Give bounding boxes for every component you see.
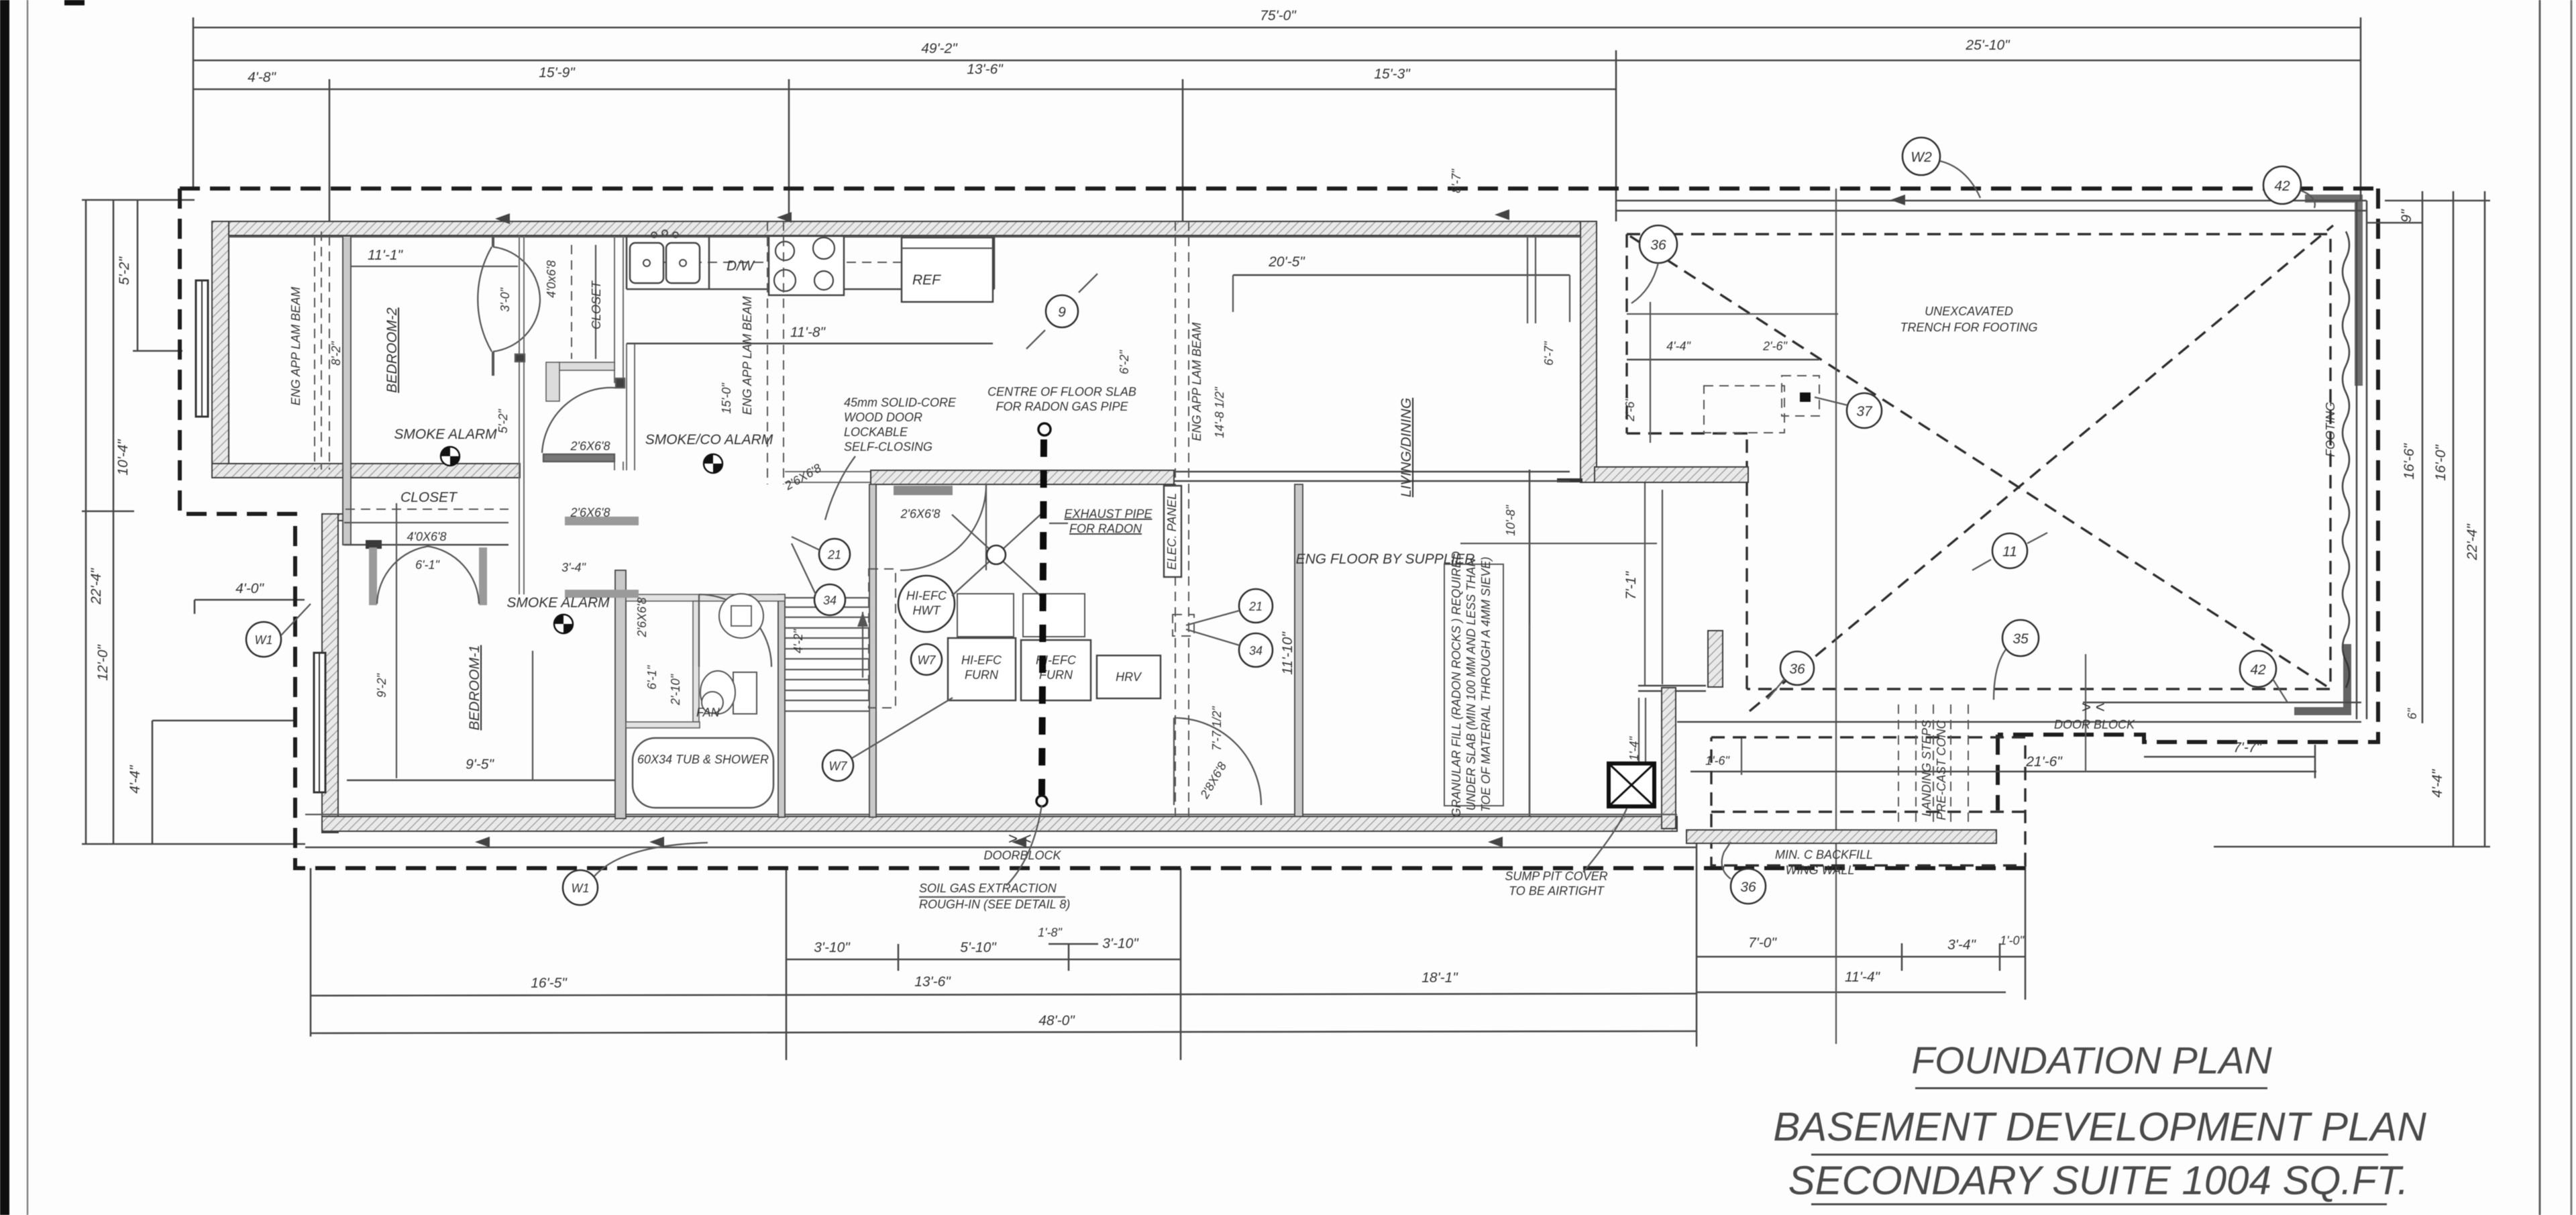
- svg-text:W7: W7: [829, 759, 848, 773]
- svg-text:FOUNDATION PLAN: FOUNDATION PLAN: [1911, 1039, 2272, 1082]
- stove with 4 burners: [769, 236, 844, 295]
- bedroom2 left wall: [343, 236, 351, 545]
- svg-text:2'6X6'8: 2'6X6'8: [570, 506, 610, 519]
- svg-text:21'-6": 21'-6": [2025, 754, 2063, 770]
- wing top wall thin lines: [1616, 200, 2367, 202]
- left wall upper: [212, 221, 229, 478]
- ext lines down from building: [310, 868, 312, 1037]
- svg-text:FOOTING: FOOTING: [2324, 402, 2337, 457]
- 11'-8" dim: [627, 343, 993, 345]
- bath top walls: [626, 594, 785, 601]
- svg-text:75'-0": 75'-0": [1260, 8, 1297, 23]
- svg-text:36: 36: [1740, 880, 1756, 895]
- svg-text:22'-4": 22'-4": [89, 568, 104, 605]
- svg-text:37: 37: [1856, 404, 1873, 419]
- bath mid wall (toilet nook): [693, 601, 699, 722]
- counter centre dashed: [631, 262, 902, 263]
- svg-text:TRENCH FOR FOOTING: TRENCH FOR FOOTING: [1900, 321, 2038, 334]
- SE corner dark angle: [2294, 644, 2347, 711]
- keynote circle W1 (left wall): [246, 622, 281, 657]
- svg-text:FOR RADON: FOR RADON: [1069, 522, 1142, 535]
- footing line under bottom wall: [305, 847, 1697, 849]
- svg-text:20'-5": 20'-5": [1268, 254, 1305, 270]
- svg-text:SOIL GAS EXTRACTION: SOIL GAS EXTRACTION: [919, 882, 1057, 895]
- svg-text:49'-2": 49'-2": [921, 41, 958, 56]
- furnace 1 HI-EFC FURN: [948, 638, 1016, 700]
- svg-text:4'-4": 4'-4": [1666, 339, 1691, 353]
- svg-text:6'-2": 6'-2": [1118, 349, 1131, 374]
- keynote circle W1 (bottom): [563, 870, 598, 905]
- living door SE: [1174, 718, 1261, 805]
- hall door: [543, 454, 614, 462]
- svg-text:MIN. C BACKFILL: MIN. C BACKFILL: [1775, 848, 1873, 861]
- bedroom2 double door: [492, 236, 494, 247]
- hot water tank HI-EFC HWT: [898, 576, 955, 632]
- svg-text:10'-4": 10'-4": [115, 439, 131, 476]
- svg-text:7'-7 1/2": 7'-7 1/2": [1210, 705, 1224, 750]
- svg-text:W7: W7: [918, 653, 936, 667]
- svg-text:CLOSET: CLOSET: [400, 490, 458, 505]
- svg-text:22'-4": 22'-4": [2465, 523, 2480, 561]
- svg-text:15'-9": 15'-9": [539, 65, 576, 81]
- closet rod dashed: [345, 509, 508, 510]
- svg-text:TOE OF MATERIAL THROUGH A 4MM: TOE OF MATERIAL THROUGH A 4MM SIEVE): [1479, 557, 1493, 812]
- top wall: [212, 221, 1597, 235]
- landing dashed rect: [869, 569, 896, 708]
- svg-text:6'-1": 6'-1": [645, 664, 659, 689]
- svg-text:4'-2": 4'-2": [792, 628, 805, 653]
- svg-text:3'-10": 3'-10": [814, 940, 851, 955]
- svg-text:14'-8 1/2": 14'-8 1/2": [1213, 386, 1226, 437]
- svg-text:W2: W2: [1911, 150, 1932, 165]
- svg-text:LOCKABLE: LOCKABLE: [844, 425, 908, 439]
- bath door: [699, 594, 771, 667]
- dashed box: [1711, 737, 2025, 865]
- svg-text:3'-0": 3'-0": [498, 286, 512, 311]
- svg-text:6": 6": [2406, 707, 2419, 719]
- svg-text:SECONDARY SUITE 1004 SQ.FT.: SECONDARY SUITE 1004 SQ.FT.: [1788, 1158, 2409, 1203]
- svg-text:9'-5": 9'-5": [466, 757, 494, 772]
- right wing outer dashed: [1998, 189, 2378, 742]
- svg-text:HRV: HRV: [1116, 670, 1142, 684]
- svg-text:2'6X6'8: 2'6X6'8: [900, 507, 941, 521]
- bathtub 60x34: [633, 738, 773, 808]
- kitchen double sink: [630, 243, 663, 283]
- svg-text:DOORBLOCK: DOORBLOCK: [983, 849, 1061, 862]
- svg-text:3'-4": 3'-4": [561, 561, 586, 574]
- X-box dashed rectangle: [1627, 234, 2330, 689]
- svg-text:2'6X6'8: 2'6X6'8: [570, 439, 610, 453]
- svg-text:42: 42: [2250, 662, 2266, 678]
- svg-text:GRANULAR FILL (RADON ROCKS ) R: GRANULAR FILL (RADON ROCKS ) REQUIRED: [1450, 551, 1463, 818]
- keynote circle 35: [2002, 620, 2039, 656]
- svg-text:W1: W1: [572, 882, 590, 895]
- left wall lower (bedroom1): [322, 514, 338, 833]
- row 16'-5" 13'-6" 18'-1" 11'-4": [311, 994, 1697, 996]
- svg-text:7'-7": 7'-7": [2233, 740, 2262, 755]
- row 7'-0" 3'-4" 1'-0": [1697, 956, 2025, 958]
- svg-text:CLOSET: CLOSET: [590, 280, 603, 329]
- svg-text:CENTRE OF FLOOR SLAB: CENTRE OF FLOOR SLAB: [987, 385, 1136, 399]
- keynote 36 circle: [1731, 869, 1766, 904]
- stair arrow: [862, 612, 863, 678]
- svg-text:34: 34: [823, 594, 837, 607]
- window left upper room: [196, 280, 208, 417]
- svg-text:16'-5": 16'-5": [531, 975, 568, 991]
- wiggly insulation line in right wall: [2343, 231, 2349, 688]
- svg-text:ELEC. PANEL: ELEC. PANEL: [1165, 493, 1179, 570]
- svg-text:2'-6": 2'-6": [1762, 339, 1788, 353]
- svg-text:48'-0": 48'-0": [1038, 1013, 1075, 1028]
- svg-text:3'-10": 3'-10": [1102, 936, 1139, 951]
- dim 21'-6": [1690, 771, 2316, 773]
- svg-text:4'0X6'8: 4'0X6'8: [407, 530, 447, 543]
- row 1'-8": [1049, 943, 1098, 945]
- toilet: [733, 672, 757, 714]
- living east boundary thin line: [1529, 470, 1531, 816]
- keynote circle 21 (left): [819, 539, 850, 570]
- svg-text:2'6X6'8: 2'6X6'8: [635, 598, 649, 638]
- svg-text:SUMP PIT COVER: SUMP PIT COVER: [1505, 869, 1607, 883]
- svg-text:16'-6": 16'-6": [2402, 443, 2417, 480]
- pipe lines to sump: [1638, 698, 1640, 763]
- svg-text:6'-7": 6'-7": [1542, 340, 1556, 365]
- svg-text:60X34 TUB & SHOWER: 60X34 TUB & SHOWER: [637, 753, 769, 766]
- living window lines: [533, 236, 1536, 780]
- keynote circle W7 (upper): [911, 644, 942, 675]
- svg-text:35: 35: [2012, 631, 2029, 647]
- svg-text:ROUGH-IN (SEE DETAIL 8): ROUGH-IN (SEE DETAIL 8): [919, 898, 1070, 911]
- hall wall right of bedroom2: [396, 503, 397, 778]
- svg-text:FURN: FURN: [965, 668, 999, 682]
- svg-text:11'-4": 11'-4": [1845, 969, 1880, 985]
- HRV unit: [1097, 655, 1161, 698]
- keynote circle 34 (left): [814, 584, 845, 615]
- svg-text:TO BE AIRTIGHT: TO BE AIRTIGHT: [1509, 884, 1605, 898]
- svg-text:3'-4": 3'-4": [1947, 937, 1976, 953]
- mid wall (mech top): [871, 470, 1174, 484]
- svg-text:ENG APP LAM BEAM: ENG APP LAM BEAM: [289, 287, 303, 406]
- row 3'-10" 5'-10" 3'-10": [786, 959, 1181, 961]
- svg-text:10'-8": 10'-8": [1504, 504, 1517, 535]
- svg-text:W1: W1: [255, 633, 273, 647]
- svg-text:PRE-CAST CONC: PRE-CAST CONC: [1935, 719, 1948, 820]
- keynote circle W2: [1902, 138, 1940, 175]
- pad detail at wing NW: [1623, 302, 1838, 443]
- wing right wall thin lines: [2356, 201, 2358, 719]
- svg-text:HWT: HWT: [913, 604, 942, 617]
- svg-text:45mm SOLID-CORE: 45mm SOLID-CORE: [844, 396, 957, 409]
- SE nook top lines: [1638, 685, 1706, 687]
- svg-text:7'-0": 7'-0": [1748, 935, 1777, 951]
- svg-text:9'-2": 9'-2": [375, 672, 388, 697]
- svg-text:HI-EFC: HI-EFC: [906, 589, 947, 602]
- svg-text:6'-1": 6'-1": [415, 558, 440, 572]
- svg-text:1'-0": 1'-0": [2000, 934, 2025, 947]
- svg-text:16'-0": 16'-0": [2433, 444, 2449, 481]
- svg-text:REF: REF: [912, 272, 941, 288]
- svg-text:ENG APP LAM BEAM: ENG APP LAM BEAM: [741, 297, 754, 415]
- svg-text:21: 21: [1248, 600, 1263, 613]
- keynote circle 9: [1046, 295, 1078, 327]
- keynote circle 21 (right): [1239, 589, 1273, 623]
- svg-text:DOOR BLOCK: DOOR BLOCK: [2054, 718, 2135, 731]
- keynote circle W7 (lower): [822, 750, 853, 781]
- svg-text:4'-4": 4'-4": [2430, 769, 2445, 798]
- svg-text:1'-4": 1'-4": [1627, 735, 1641, 760]
- bathroom lavatory: [719, 594, 763, 638]
- sheet right border lines: [2539, 0, 2541, 1215]
- svg-text:5'-2": 5'-2": [117, 256, 132, 285]
- svg-text:9: 9: [1058, 305, 1066, 320]
- svg-text:UNEXCAVATED: UNEXCAVATED: [1925, 305, 2013, 318]
- furnace boxes: [957, 594, 1014, 637]
- svg-text:LIVING/DINING: LIVING/DINING: [1399, 398, 1414, 497]
- SE small hatch corner: [1708, 631, 1723, 687]
- svg-text:> <: > <: [2082, 698, 2105, 717]
- svg-text:11: 11: [2002, 544, 2017, 560]
- stairs treads: [785, 606, 869, 608]
- svg-text:36: 36: [1789, 662, 1805, 677]
- svg-text:9": 9": [2399, 209, 2414, 223]
- svg-text:FOR RADON GAS PIPE: FOR RADON GAS PIPE: [996, 400, 1128, 413]
- svg-text:11'-8": 11'-8": [790, 325, 826, 340]
- step to bedroom1 wall: [322, 514, 349, 521]
- long ext line through wing: [1835, 189, 1837, 1044]
- svg-text:7'-1": 7'-1": [1623, 571, 1639, 600]
- row 48'-0": [311, 1031, 1697, 1033]
- svg-text:SMOKE/CO ALARM: SMOKE/CO ALARM: [645, 432, 773, 447]
- right wall upper: [1580, 221, 1597, 482]
- dim 49'-2" / 25'-10" line: [193, 38, 2361, 221]
- svg-text:FAN: FAN: [696, 706, 720, 719]
- dashed vertical at sump side: [1996, 735, 2000, 810]
- dim 7'-7": [2144, 756, 2315, 758]
- svg-text:25'-10": 25'-10": [1965, 38, 2010, 53]
- bottom wall: [322, 816, 1677, 831]
- dim 4'-8" 15'-9" 13'-6" 15'-3" line: [193, 62, 1616, 236]
- mech door: [900, 484, 986, 570]
- landing steps dashed verticals: [1898, 704, 1899, 827]
- svg-text:LANDING STEPS: LANDING STEPS: [1920, 720, 1933, 816]
- NE corner dark angle (keynote 42): [2305, 199, 2359, 386]
- svg-text:4'-0": 4'-0": [235, 581, 264, 596]
- svg-text:4'-8": 4'-8": [248, 70, 276, 85]
- svg-text:SMOKE ALARM: SMOKE ALARM: [506, 595, 610, 611]
- sheet left thin border line: [27, 0, 28, 1215]
- door header dark bars: [894, 486, 953, 495]
- wing bottom lines: [2083, 702, 2361, 704]
- 7'-1" rotated dim: [1644, 482, 1646, 686]
- svg-text:UNDER SLAB (MIN 100 MM AND LES: UNDER SLAB (MIN 100 MM AND LESS THAN: [1464, 558, 1478, 810]
- svg-text:8'-2": 8'-2": [329, 340, 343, 365]
- dim 4'-0": [195, 599, 305, 601]
- keynote circle 36 (mid): [1780, 651, 1814, 685]
- bedroom1 double door: [369, 547, 377, 605]
- svg-text:SELF-CLOSING: SELF-CLOSING: [844, 440, 932, 454]
- exhaust fan X: [952, 515, 1040, 596]
- vertical ext by pit: [2085, 654, 2086, 772]
- SE nook right wall: [1662, 688, 1676, 829]
- svg-text:SMOKE ALARM: SMOKE ALARM: [394, 427, 497, 442]
- svg-text:HI-EFC: HI-EFC: [961, 653, 1002, 667]
- window bedroom1: [314, 653, 325, 792]
- sheet top-left black tick: [64, 0, 85, 5]
- right step band to wing: [1595, 467, 1748, 482]
- svg-text:BASEMENT DEVELOPMENT PLAN: BASEMENT DEVELOPMENT PLAN: [1773, 1104, 2426, 1149]
- granular fill rotated box: [1444, 564, 1503, 806]
- bath/stairs wall: [778, 594, 785, 817]
- svg-text:42: 42: [2274, 178, 2290, 194]
- keynote circle 37: [1847, 393, 1882, 428]
- left dim chain ticks: [82, 199, 195, 201]
- svg-text:BEDROOM-1: BEDROOM-1: [467, 645, 482, 730]
- svg-text:8'-7": 8'-7": [1450, 168, 1463, 193]
- dim 75'-0" line: [193, 8, 2361, 201]
- svg-text:15'-3": 15'-3": [1374, 66, 1411, 82]
- left dashed footing with jogs: [180, 189, 2025, 868]
- hatched wing wall band: [1686, 830, 1996, 843]
- svg-text:1'-8": 1'-8": [1038, 926, 1063, 939]
- svg-text:34: 34: [1249, 644, 1263, 657]
- keynote circle 11: [1992, 533, 2027, 568]
- keynote circle 42 (top): [2263, 166, 2301, 204]
- pantry closet walls: [614, 236, 615, 383]
- sump pit: [1609, 763, 1654, 806]
- svg-text:BEDROOM-2: BEDROOM-2: [384, 307, 400, 393]
- svg-text:13'-6": 13'-6": [914, 974, 951, 990]
- svg-text:4'-4": 4'-4": [127, 765, 143, 794]
- closet bottom wall line with door header: [344, 544, 508, 546]
- svg-text:ENG APP LAM BEAM: ENG APP LAM BEAM: [1190, 323, 1203, 441]
- svg-text:EXHAUST PIPE: EXHAUST PIPE: [1064, 507, 1152, 521]
- counter edge: [627, 288, 994, 290]
- stairs right wall: [869, 484, 876, 817]
- svg-text:4'0x6'8: 4'0x6'8: [545, 260, 558, 298]
- X diagonals: [1630, 236, 2328, 687]
- svg-text:2'-10": 2'-10": [669, 673, 682, 705]
- fridge REF: [902, 237, 993, 302]
- tub front wall: [626, 722, 700, 728]
- svg-text:13'-6": 13'-6": [967, 62, 1004, 77]
- svg-text:WING WALL: WING WALL: [1786, 863, 1855, 877]
- svg-text:2'-6": 2'-6": [1623, 396, 1637, 421]
- svg-text:> <: > <: [1008, 830, 1032, 848]
- svg-text:D/W: D/W: [727, 258, 755, 274]
- mech/living wall: [1295, 484, 1303, 816]
- top dashed footing line: [180, 187, 2378, 191]
- bath fan: [702, 692, 723, 713]
- jog bottom wall of NW room: [212, 464, 520, 478]
- sheet left black bar: [0, 0, 9, 1215]
- keynote circle 42 (bottom): [2240, 651, 2276, 687]
- svg-text:15'-0": 15'-0": [720, 382, 733, 413]
- bath left wall: [615, 570, 626, 818]
- svg-text:18'-1": 18'-1": [1421, 970, 1458, 986]
- svg-text:5'-2": 5'-2": [496, 408, 510, 433]
- svg-text:11'-1": 11'-1": [368, 248, 403, 263]
- svg-text:5'-10": 5'-10": [960, 940, 997, 955]
- svg-text:36: 36: [1650, 237, 1666, 253]
- svg-text:11'-10": 11'-10": [1280, 631, 1295, 675]
- keynote circle 36 (top): [1640, 225, 1677, 263]
- svg-text:WOOD DOOR: WOOD DOOR: [844, 411, 922, 424]
- furnace 2 HI-EFC FURN: [1021, 640, 1091, 700]
- svg-text:1'-6": 1'-6": [1705, 754, 1730, 768]
- electrical panel: [1164, 486, 1181, 577]
- svg-text:21: 21: [827, 548, 841, 562]
- svg-text:12'-0": 12'-0": [95, 644, 111, 681]
- keynote circle 34 (right): [1239, 633, 1273, 667]
